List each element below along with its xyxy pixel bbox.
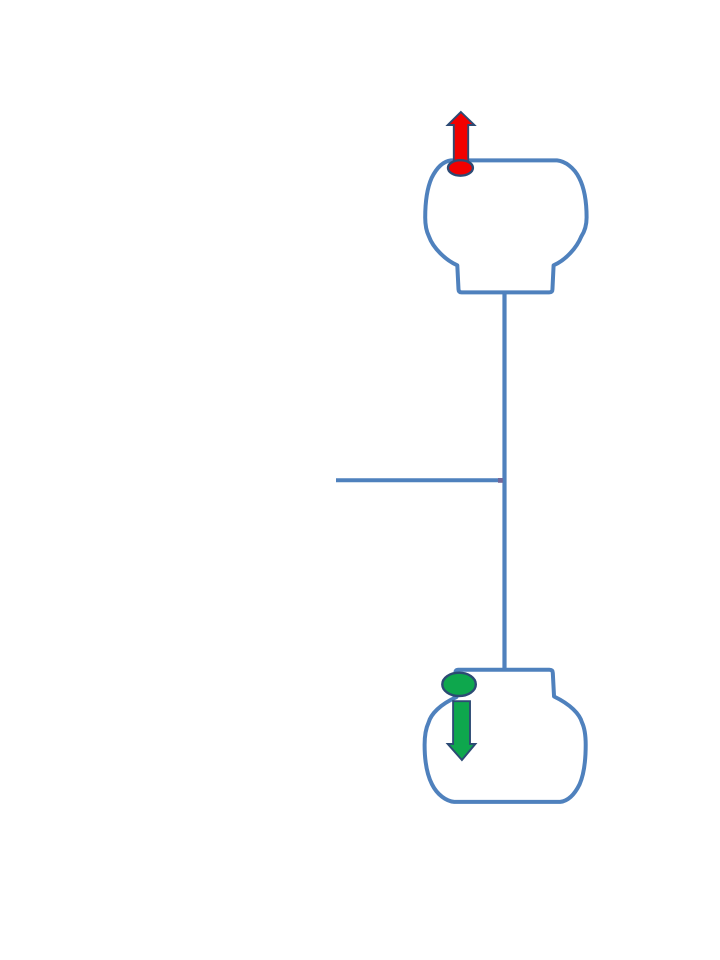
green down arrow	[448, 701, 476, 760]
top vessel (flat-top bulb with stepped base)	[425, 160, 586, 292]
junction mark at wire crossing	[498, 478, 503, 483]
bottom vessel (wide-bottom bulb with stepped top)	[425, 670, 586, 802]
green ellipse port (bottom vessel)	[442, 673, 476, 696]
vertical connector wire between vessels	[502, 292, 506, 670]
horizontal connector wire from left	[336, 478, 505, 482]
red ellipse port (top vessel)	[448, 160, 473, 176]
red up arrow	[448, 112, 475, 170]
